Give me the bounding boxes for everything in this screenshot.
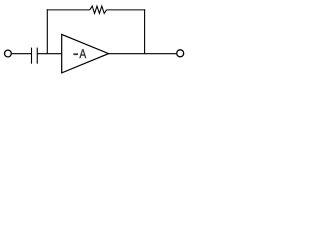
resistor R (zigzag) [90, 6, 107, 13]
wire amplifier output [109, 53, 177, 55]
label -A [74, 54, 78, 55]
op-amp U1 (triangle) [62, 34, 109, 73]
wire top feedback left [47, 9, 90, 11]
capacitor C left plate [31, 48, 33, 64]
wire top feedback right [107, 9, 146, 11]
wire feedback down to output [144, 9, 146, 53]
node: feedback tap, vertical wire up [46, 9, 48, 53]
wire capacitor to amplifier input [37, 53, 62, 55]
output terminal [177, 50, 184, 57]
capacitor C right plate [36, 48, 38, 64]
wire input to capacitor [12, 53, 32, 55]
input terminal [5, 50, 12, 57]
